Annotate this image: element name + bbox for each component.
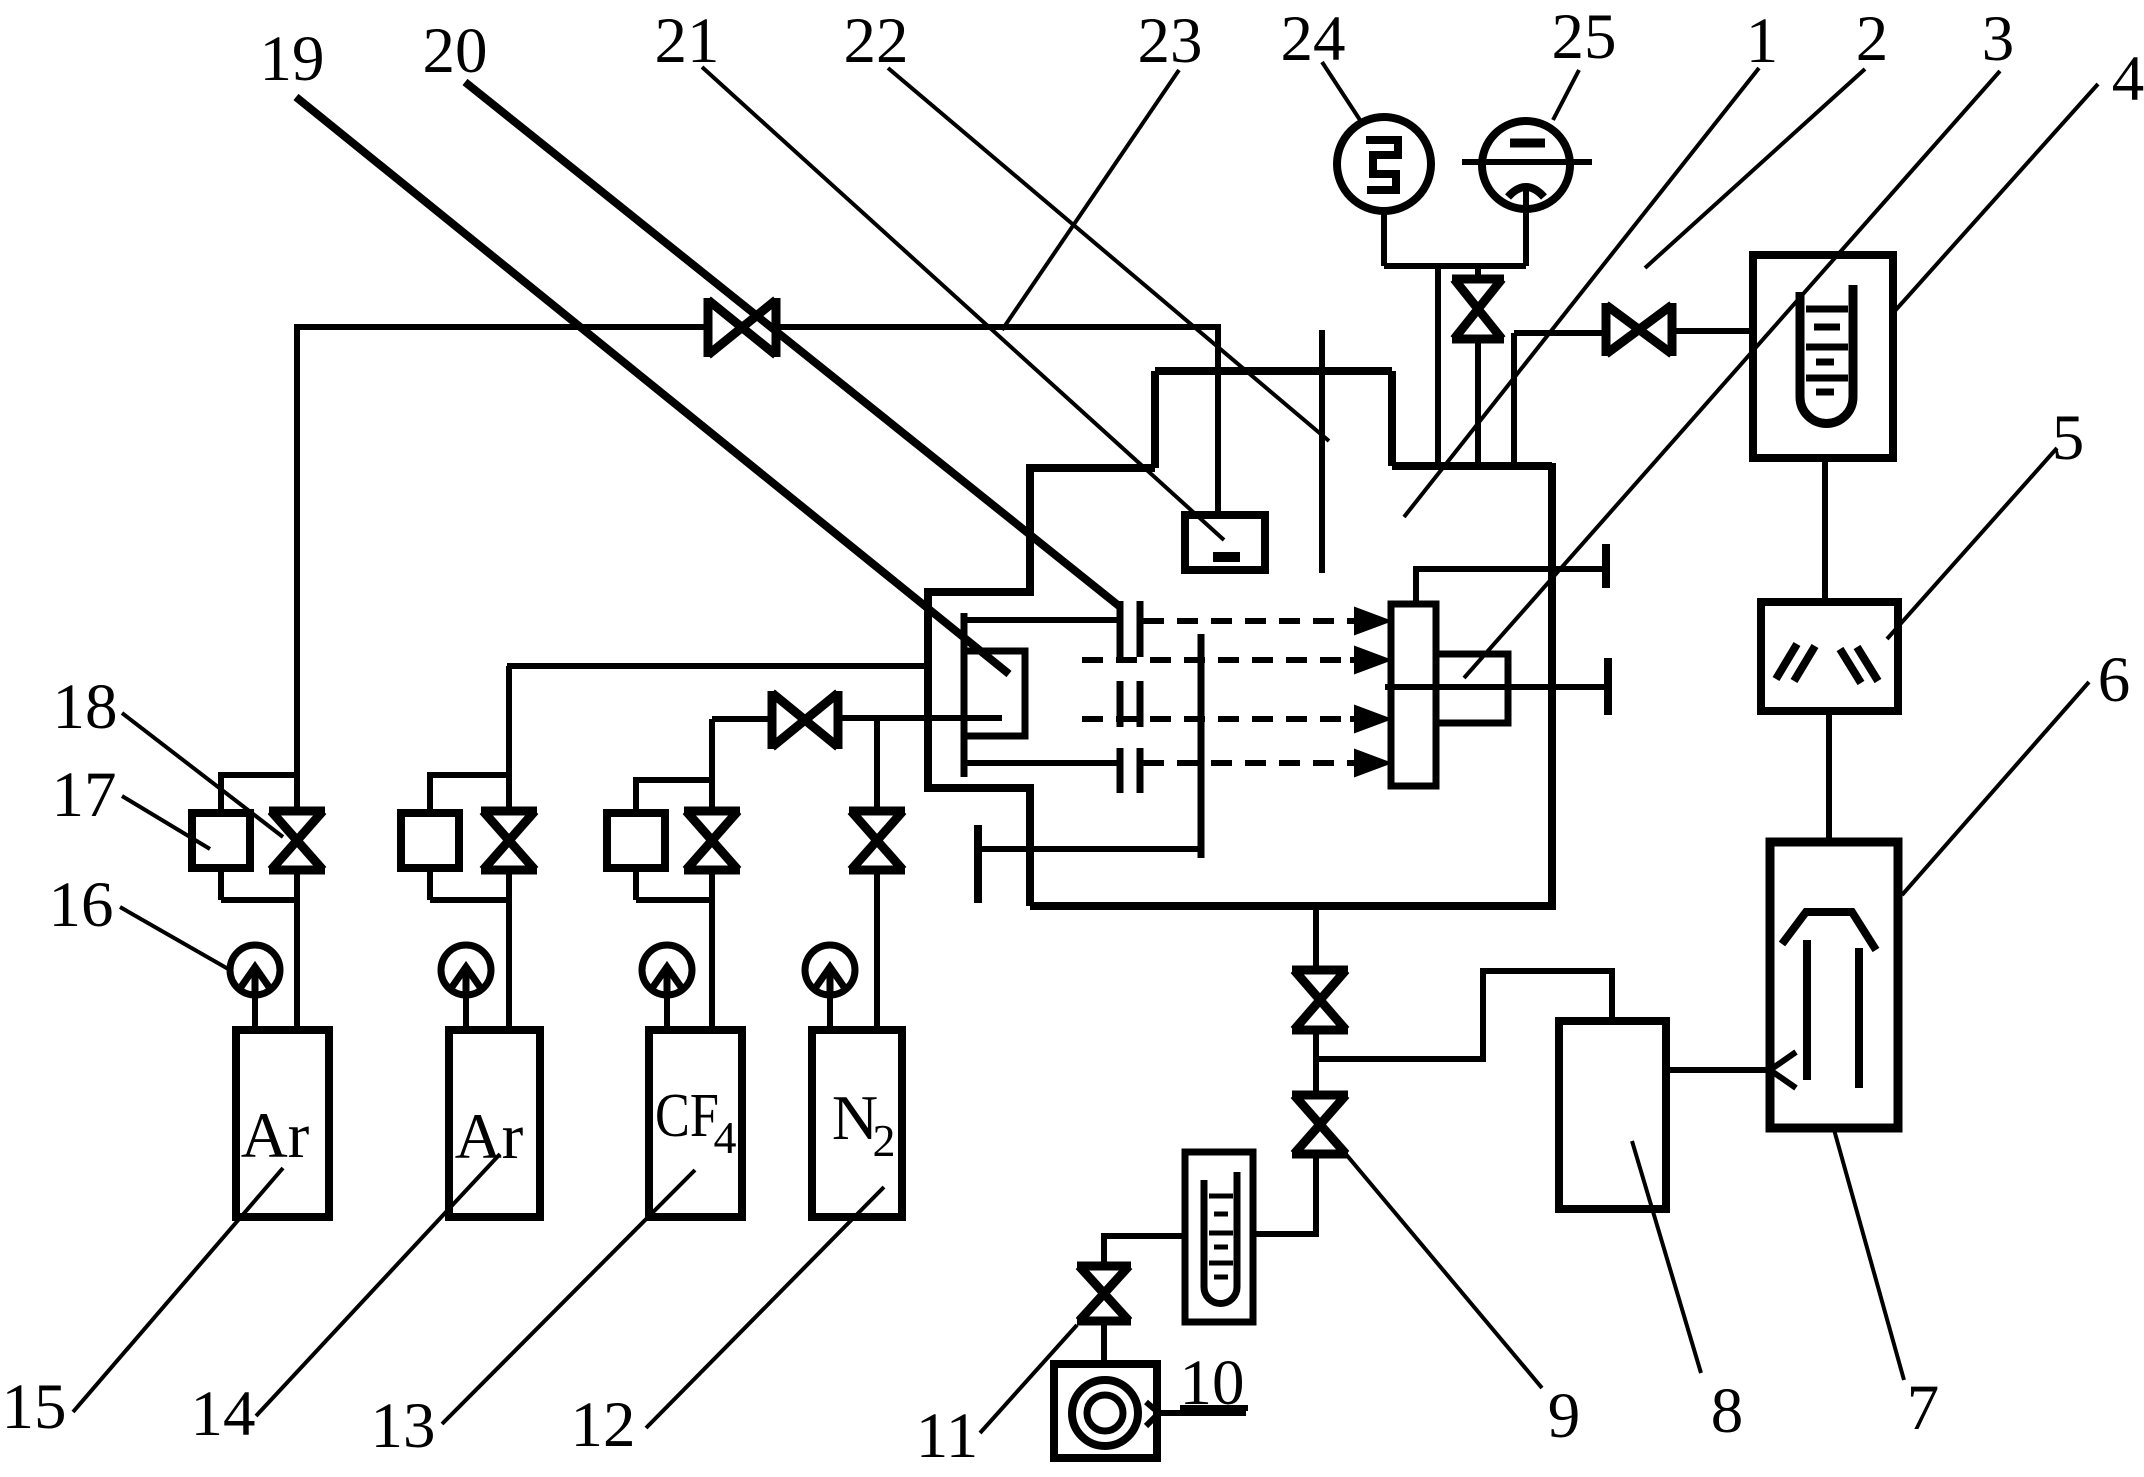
wire flowmeter to valve11 (1104, 1236, 1185, 1263)
leader 15 (73, 1168, 283, 1412)
svg-text:4: 4 (2112, 43, 2144, 115)
svg-text:10: 10 (1180, 1347, 1245, 1419)
svg-text:20: 20 (423, 15, 488, 87)
svg-text:Ar: Ar (241, 1100, 310, 1172)
svg-text:7: 7 (1907, 1372, 1940, 1444)
svg-text:21: 21 (655, 5, 720, 77)
wire box5 to pump6 (1826, 711, 1832, 842)
ion beam dashed row4 (1143, 760, 1350, 766)
diffusion pump 6 box (1770, 842, 1898, 1128)
leader 6 (1902, 682, 2089, 895)
glyph inside gauge 24 (1366, 140, 1398, 190)
valve assembly CF4 bypass (636, 780, 712, 900)
wire valve to cold trap (1672, 328, 1753, 334)
valve H on feed line (772, 691, 838, 749)
frown inside gauge 25 (1508, 187, 1544, 197)
valve 9 (1292, 1095, 1348, 1154)
svg-text:25: 25 (1552, 1, 1617, 73)
svg-text:9: 9 (1548, 1380, 1581, 1452)
wire top gas pipe left segment (297, 324, 708, 330)
leader 14 (256, 1154, 500, 1416)
gauge circle 24 (1337, 117, 1431, 211)
component 5 box (1761, 602, 1898, 711)
leader 10 arrow (1146, 1402, 1248, 1426)
leader 20 thick (465, 82, 1119, 606)
leader 21 (702, 67, 1224, 540)
wire manifold elbow to chamber (1435, 266, 1441, 466)
wire gauge stems and manifold (1384, 190, 1526, 266)
flow controller square 17 (192, 813, 250, 868)
chamber 1 outline (1028, 371, 1556, 906)
wire gas feed to casing (507, 663, 928, 669)
wire CF4 riser (709, 719, 715, 1030)
ion source casing (928, 592, 1034, 788)
svg-text:Ar: Ar (455, 1101, 524, 1173)
pump 10 outer circle (1072, 1380, 1138, 1446)
leader 9 (1334, 1140, 1542, 1388)
flow controller square Ar2 (401, 813, 459, 868)
wire cold trap to box5 (1822, 458, 1828, 602)
bar inside gauge 25 (1510, 139, 1545, 148)
flowmeter level bars (1209, 1196, 1233, 1277)
pressure gauge CF4 (642, 945, 692, 995)
pressure gauge Ar2 (441, 945, 491, 995)
wire top conductor to grid (962, 617, 1117, 623)
leader 7 (1833, 1126, 1904, 1380)
terminal bar bottom left (974, 825, 982, 903)
cathode plate 19 region (961, 613, 968, 777)
wire below valve9 to flowmeter (1253, 1157, 1316, 1234)
wire Ar1 riser lower (294, 872, 300, 1030)
value dash inside shower box (1213, 552, 1240, 562)
flowmeter box (1185, 1152, 1253, 1322)
valve N2 (849, 811, 905, 870)
leader 18 (122, 713, 283, 837)
arrowheads of beams (1355, 608, 1390, 776)
leader 4 (1893, 84, 2098, 313)
wire chamber to right valve pipe (1514, 330, 1606, 336)
grid column 20 first (1117, 601, 1124, 793)
terminal bar lower right (1604, 658, 1612, 715)
wire gas feed into anode (838, 715, 1002, 721)
svg-text:6: 6 (2098, 644, 2131, 716)
pump 10 box (1054, 1364, 1157, 1458)
pressure gauge 16 (230, 945, 280, 995)
ion beam dashed row3 (1082, 716, 1350, 722)
gas cylinder 12 N2 (812, 1030, 902, 1217)
wire diameter line gauge 25 (1462, 159, 1592, 165)
pump 10 inner circle (1087, 1395, 1123, 1431)
leader 8 (1632, 1141, 1701, 1373)
valve assembly Ar2 bypass (430, 775, 509, 900)
leader 12 (646, 1187, 884, 1428)
pump 6 roof (1782, 912, 1876, 950)
cold trap tube (1800, 285, 1853, 424)
svg-text:24: 24 (1281, 3, 1346, 75)
cold trap level bars (1806, 309, 1848, 392)
cold trap 4 box (1753, 255, 1893, 458)
gauge circle 25 (1482, 121, 1570, 209)
wire holder axis (1385, 684, 1605, 690)
wire chamber bottom stem (1313, 906, 1319, 967)
wire electrode bottom conductor (980, 846, 1201, 852)
wire feedthrough upper (1416, 569, 1605, 604)
valve Ar2 (481, 811, 537, 870)
leader 16 (120, 907, 230, 970)
target rod 22 (1319, 330, 1325, 573)
target plate 2 (1391, 604, 1436, 786)
svg-text:CF: CF (655, 1082, 719, 1150)
svg-text:12: 12 (571, 1389, 636, 1461)
svg-text:23: 23 (1138, 5, 1203, 77)
svg-text:19: 19 (260, 23, 325, 95)
svg-text:1: 1 (1746, 5, 1779, 77)
wire CF4 junction to hvalve (712, 716, 772, 722)
svg-text:11: 11 (916, 1400, 979, 1472)
wire top gas pipe right segment (776, 324, 1218, 330)
pressure gauge N2 (805, 945, 855, 995)
leader 3 (1464, 71, 2000, 678)
flowmeter tube (1204, 1172, 1237, 1304)
wire valve11 to pump10 (1101, 1324, 1107, 1364)
terminal bar upper right (1602, 544, 1610, 588)
wire bottom conductor to grid (962, 760, 1117, 766)
svg-text:18: 18 (53, 671, 118, 743)
valve CF4 (684, 811, 740, 870)
anode box (966, 651, 1025, 736)
svg-text:16: 16 (49, 869, 114, 941)
leader 2 (1645, 69, 1865, 268)
wire Ar1 riser upper (294, 324, 300, 808)
leader 13 (442, 1170, 695, 1424)
grid column second (1137, 601, 1144, 793)
valve V19a on top pipe (708, 298, 776, 357)
slashes inside box5 (1776, 644, 1878, 683)
gas cylinder 14 Ar (449, 1030, 540, 1217)
pump 6 inner tubes (1807, 940, 1859, 1088)
flow controller square CF4 (607, 813, 665, 868)
svg-text:13: 13 (371, 1390, 436, 1462)
valve assembly Ar1: bypass (221, 775, 297, 900)
svg-text:2: 2 (873, 1115, 896, 1166)
svg-text:3: 3 (1982, 3, 2015, 75)
accel electrode solid (1198, 634, 1205, 858)
valve 2 isolation (1606, 303, 1672, 356)
pump 7 box (1559, 1021, 1666, 1209)
wire N2 riser (874, 719, 880, 1030)
leader 17 (122, 796, 210, 849)
wire pump7 connector (1316, 971, 1612, 1059)
ion beam dashed row1 (1143, 618, 1350, 624)
leader 25 (1553, 70, 1579, 120)
valve 18 (269, 811, 325, 870)
leader 11 (980, 1325, 1077, 1433)
wire valve stem upper (1475, 266, 1481, 279)
leader 22 (888, 68, 1329, 441)
arrow into pump6 (1666, 1052, 1796, 1088)
wire between valves (1313, 1033, 1319, 1092)
svg-text:5: 5 (2052, 402, 2085, 474)
shower box 21 (1185, 515, 1265, 570)
valve V26 vertical above chamber (1452, 279, 1504, 339)
wire Ar2 riser (506, 666, 512, 1030)
svg-text:N: N (832, 1082, 878, 1153)
leader 1 (1404, 68, 1759, 517)
leader 23 (1002, 70, 1179, 330)
svg-text:15: 15 (2, 1371, 67, 1443)
svg-text:17: 17 (52, 759, 117, 831)
gas cylinder 15 Ar (236, 1030, 329, 1217)
holder block 3 (1436, 654, 1508, 723)
svg-text:22: 22 (844, 5, 909, 77)
svg-text:4: 4 (714, 1112, 737, 1163)
leader 24 (1322, 62, 1360, 120)
wire pipe elbow down to shower box (1215, 324, 1221, 517)
gas cylinder 13 CF4 (649, 1030, 742, 1217)
wire valve stem lower into chamber (1475, 341, 1481, 466)
wire chamber riser (1511, 333, 1517, 466)
leader 5 (1887, 448, 2057, 639)
svg-text:2: 2 (1856, 3, 1889, 75)
valve main outlet (1292, 970, 1348, 1030)
ion beam dashed row2 (1082, 657, 1350, 663)
leader 19 thick (296, 97, 1009, 674)
valve 11 (1077, 1266, 1131, 1321)
svg-text:8: 8 (1711, 1375, 1744, 1447)
svg-text:14: 14 (191, 1378, 256, 1450)
